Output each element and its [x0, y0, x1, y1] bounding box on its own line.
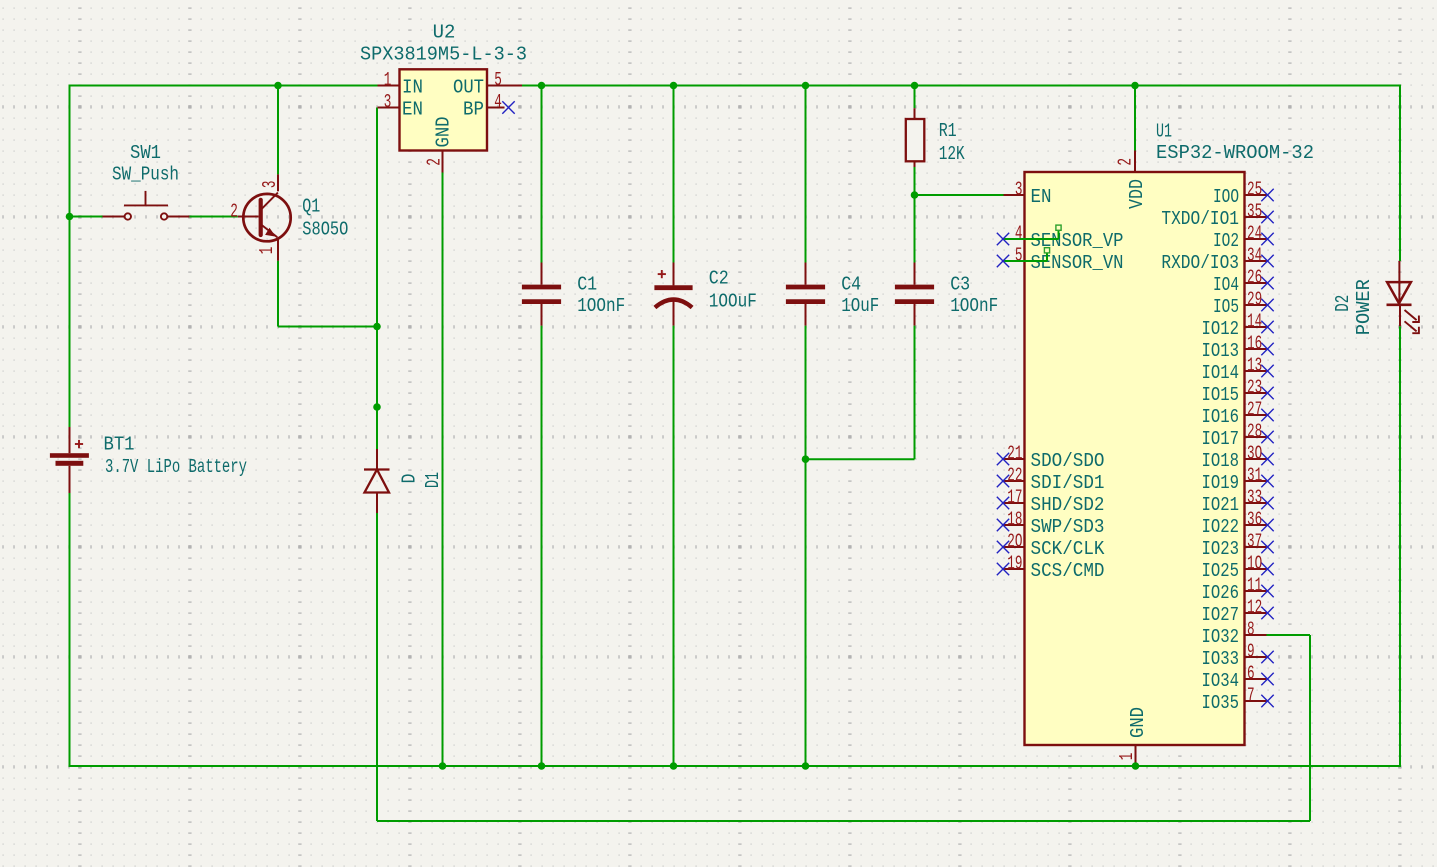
- svg-text:24: 24: [1247, 223, 1262, 245]
- svg-text:7: 7: [1247, 685, 1255, 707]
- svg-text:SPX3819M5-L-3-3: SPX3819M5-L-3-3: [360, 43, 527, 65]
- svg-text:IO23: IO23: [1202, 538, 1240, 560]
- svg-text:29: 29: [1247, 289, 1262, 311]
- svg-text:1: 1: [384, 69, 392, 91]
- svg-text:2O: 2O: [1007, 531, 1022, 553]
- svg-text:6: 6: [1247, 663, 1255, 685]
- svg-text:C3: C3: [950, 274, 970, 296]
- svg-text:IO35: IO35: [1202, 692, 1240, 714]
- svg-text:IO18: IO18: [1202, 450, 1240, 472]
- svg-text:IO5: IO5: [1213, 296, 1239, 318]
- svg-text:C2: C2: [709, 267, 729, 289]
- svg-text:U1: U1: [1156, 120, 1172, 142]
- svg-text:3.7V LiPo Battery: 3.7V LiPo Battery: [105, 456, 247, 478]
- svg-text:4: 4: [1015, 223, 1023, 245]
- svg-text:1: 1: [256, 247, 278, 255]
- svg-text:33: 33: [1247, 487, 1262, 509]
- svg-text:C4: C4: [841, 274, 861, 296]
- svg-text:D2: D2: [1332, 295, 1354, 312]
- svg-text:IO4: IO4: [1213, 274, 1239, 296]
- svg-text:SWP/SD3: SWP/SD3: [1031, 516, 1105, 538]
- svg-text:EN: EN: [402, 98, 423, 120]
- svg-text:3: 3: [384, 91, 392, 113]
- svg-text:25: 25: [1247, 179, 1262, 201]
- svg-text:GND: GND: [1127, 707, 1149, 738]
- svg-text:Q1: Q1: [302, 196, 320, 218]
- svg-text:SDI/SD1: SDI/SD1: [1031, 472, 1105, 494]
- svg-text:SW1: SW1: [130, 142, 161, 164]
- svg-text:2: 2: [230, 201, 238, 223]
- svg-text:SCS/CMD: SCS/CMD: [1031, 560, 1105, 582]
- svg-text:U2: U2: [433, 21, 456, 43]
- svg-text:IO14: IO14: [1202, 362, 1240, 384]
- svg-text:16: 16: [1247, 333, 1262, 355]
- svg-text:IO21: IO21: [1202, 494, 1240, 516]
- svg-text:IO34: IO34: [1202, 670, 1240, 692]
- svg-text:2: 2: [1114, 158, 1136, 166]
- svg-text:IO13: IO13: [1202, 340, 1240, 362]
- svg-text:11: 11: [1247, 575, 1262, 597]
- svg-text:IO15: IO15: [1202, 384, 1240, 406]
- svg-text:IOO: IOO: [1213, 186, 1239, 208]
- svg-text:12K: 12K: [939, 143, 965, 165]
- svg-text:8: 8: [1247, 619, 1255, 641]
- svg-text:1OOnF: 1OOnF: [577, 295, 625, 317]
- svg-text:36: 36: [1247, 509, 1262, 531]
- svg-text:IO25: IO25: [1202, 560, 1240, 582]
- svg-text:BT1: BT1: [104, 433, 135, 455]
- svg-text:D: D: [398, 474, 420, 484]
- svg-text:OUT: OUT: [453, 76, 484, 98]
- svg-text:IO26: IO26: [1202, 582, 1240, 604]
- svg-text:28: 28: [1247, 421, 1262, 443]
- svg-text:37: 37: [1247, 531, 1262, 553]
- svg-text:23: 23: [1247, 377, 1262, 399]
- svg-text:14: 14: [1247, 311, 1262, 333]
- svg-text:IO16: IO16: [1202, 406, 1240, 428]
- svg-text:27: 27: [1247, 399, 1262, 421]
- svg-text:4: 4: [494, 91, 502, 113]
- svg-text:9: 9: [1247, 641, 1255, 663]
- svg-text:3O: 3O: [1247, 443, 1262, 465]
- svg-text:22: 22: [1007, 465, 1022, 487]
- svg-text:2: 2: [423, 158, 445, 166]
- svg-text:D1: D1: [422, 472, 444, 488]
- svg-text:13: 13: [1247, 355, 1262, 377]
- svg-text:VDD: VDD: [1126, 179, 1148, 209]
- svg-text:IO32: IO32: [1202, 626, 1240, 648]
- svg-text:18: 18: [1007, 509, 1022, 531]
- svg-text:SCK/CLK: SCK/CLK: [1031, 538, 1106, 560]
- svg-text:19: 19: [1007, 553, 1022, 575]
- svg-text:17: 17: [1007, 487, 1022, 509]
- svg-text:SDO/SDO: SDO/SDO: [1031, 450, 1105, 472]
- svg-text:IO2: IO2: [1213, 230, 1239, 252]
- svg-text:IO17: IO17: [1202, 428, 1240, 450]
- svg-text:IO27: IO27: [1202, 604, 1240, 626]
- svg-text:S8O5O: S8O5O: [302, 219, 348, 241]
- svg-text:12: 12: [1247, 597, 1262, 619]
- svg-text:3: 3: [259, 181, 281, 189]
- svg-text:IO22: IO22: [1202, 516, 1240, 538]
- svg-text:RXDO/IO3: RXDO/IO3: [1161, 252, 1239, 274]
- svg-text:35: 35: [1247, 201, 1262, 223]
- svg-text:SENSOR_VN: SENSOR_VN: [1031, 252, 1124, 274]
- svg-text:IO33: IO33: [1202, 648, 1240, 670]
- svg-text:TXDO/IO1: TXDO/IO1: [1161, 208, 1239, 230]
- svg-text:1O: 1O: [1247, 553, 1262, 575]
- svg-text:1OOnF: 1OOnF: [950, 295, 998, 317]
- svg-text:SW_Push: SW_Push: [112, 163, 179, 185]
- svg-text:IO19: IO19: [1202, 472, 1240, 494]
- svg-text:21: 21: [1007, 443, 1022, 465]
- svg-text:1OOuF: 1OOuF: [709, 291, 757, 313]
- svg-text:5: 5: [494, 69, 502, 91]
- svg-text:34: 34: [1247, 245, 1262, 267]
- svg-text:1: 1: [1116, 753, 1138, 761]
- svg-text:R1: R1: [939, 120, 957, 142]
- svg-text:3: 3: [1015, 179, 1023, 201]
- svg-text:C1: C1: [577, 274, 597, 296]
- svg-text:26: 26: [1247, 267, 1262, 289]
- svg-text:1OuF: 1OuF: [841, 295, 879, 317]
- svg-text:31: 31: [1247, 465, 1262, 487]
- svg-text:EN: EN: [1031, 186, 1052, 208]
- svg-text:BP: BP: [463, 98, 484, 120]
- svg-text:5: 5: [1015, 245, 1023, 267]
- svg-text:POWER: POWER: [1353, 279, 1375, 335]
- svg-text:GND: GND: [432, 117, 454, 148]
- svg-text:IN: IN: [402, 76, 423, 98]
- svg-text:SHD/SD2: SHD/SD2: [1031, 494, 1105, 516]
- svg-text:IO12: IO12: [1202, 318, 1240, 340]
- svg-text:ESP32-WROOM-32: ESP32-WROOM-32: [1156, 142, 1314, 164]
